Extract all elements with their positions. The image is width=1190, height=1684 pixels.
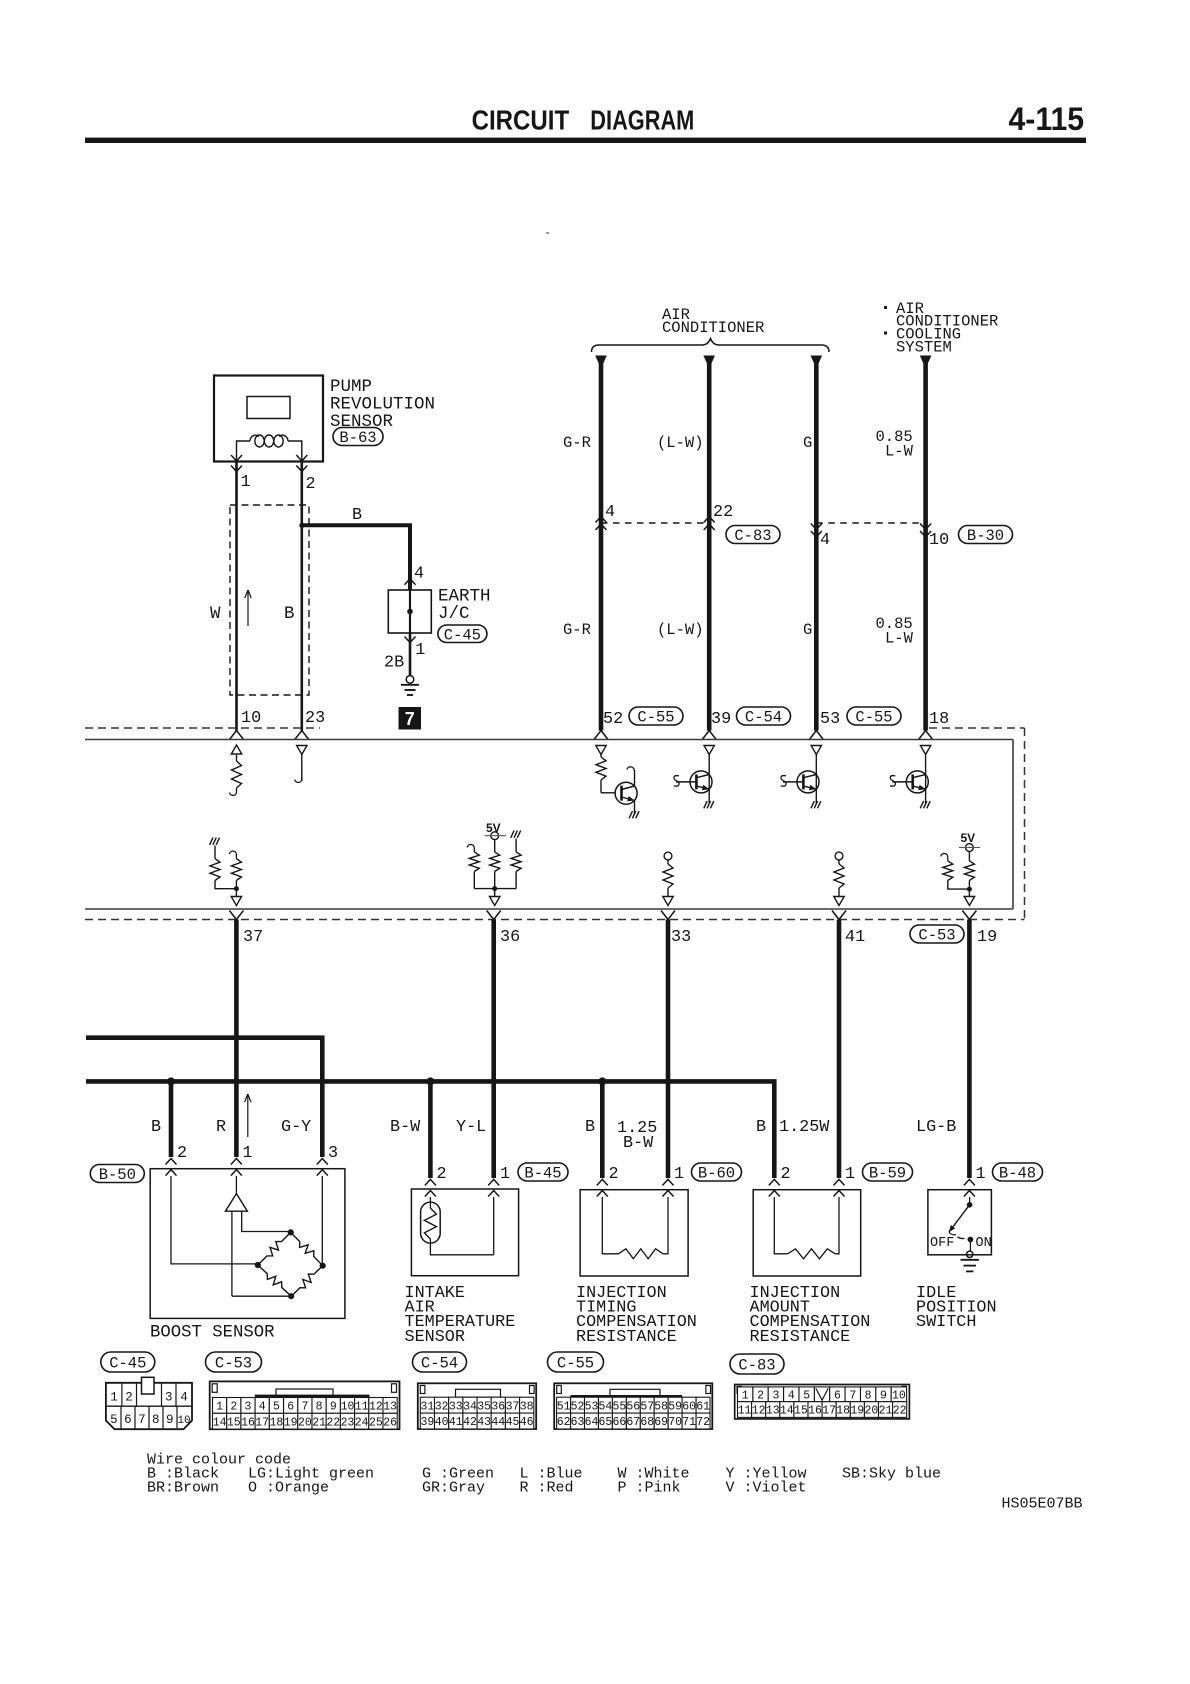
svg-text:14: 14: [780, 1405, 794, 1418]
svg-text:10: 10: [892, 1389, 906, 1402]
label INJECTION AMOUNT COMPENSATION RESISTANCE: [750, 1284, 871, 1347]
connector C-83 drawing: [735, 1385, 910, 1419]
svg-text:RESISTANCE: RESISTANCE: [750, 1328, 851, 1347]
legend title: [147, 1452, 291, 1469]
svg-text:7: 7: [301, 1401, 308, 1414]
timing pin label 2: [609, 1165, 619, 1184]
pin label 1: [241, 473, 251, 492]
connector arrows pin1: [231, 455, 242, 472]
wire 33: [666, 920, 671, 1179]
svg-text:RESISTANCE: RESISTANCE: [576, 1328, 677, 1347]
svg-text:3: 3: [772, 1389, 779, 1402]
svg-text:B-45: B-45: [524, 1165, 561, 1183]
svg-text:L-W: L-W: [885, 443, 914, 461]
label G upper: [803, 434, 812, 452]
svg-text:21: 21: [312, 1416, 326, 1429]
fork ECU bottom x668: [661, 911, 675, 920]
earth J/C box C-45: [388, 590, 431, 633]
svg-text:1: 1: [110, 1391, 118, 1405]
label INTAKE AIR TEMPERATURE SENSOR: [405, 1284, 516, 1347]
svg-text:6: 6: [287, 1401, 294, 1414]
svg-text:3: 3: [165, 1391, 173, 1405]
intake pin label 2: [437, 1165, 447, 1184]
svg-text:(L-W): (L-W): [657, 434, 704, 452]
transistor Q1: [596, 746, 639, 819]
svg-text:4: 4: [788, 1389, 795, 1402]
transistor Q2: [674, 746, 715, 809]
page title CIRCUIT DIAGRAM: [472, 105, 695, 136]
svg-text:4-115: 4-115: [1009, 101, 1085, 137]
connector label C-45: [438, 625, 487, 644]
svg-text:2: 2: [125, 1391, 133, 1405]
svg-text:10: 10: [241, 709, 261, 728]
intake pin1 arrows: [488, 1179, 499, 1196]
svg-text:53: 53: [820, 710, 840, 729]
bus line upper: [86, 1038, 322, 1157]
label Y-L: [456, 1118, 486, 1137]
svg-text:23: 23: [305, 709, 325, 728]
svg-text:8: 8: [316, 1401, 323, 1414]
amount pin2 arrows: [769, 1179, 780, 1196]
svg-text:33: 33: [671, 928, 691, 947]
label LG-B: [916, 1118, 956, 1137]
svg-text:45: 45: [506, 1416, 520, 1429]
pin 4 C83: [605, 503, 615, 522]
label 0.85 L-W lower: [876, 615, 914, 648]
svg-text:22: 22: [713, 503, 733, 522]
fork ECU bottom x236: [229, 911, 243, 920]
connector label C-45 bottom: [101, 1352, 155, 1373]
svg-text:C-83: C-83: [734, 527, 771, 545]
svg-text:68: 68: [640, 1416, 654, 1429]
svg-text:20: 20: [864, 1405, 878, 1418]
svg-text:14: 14: [213, 1416, 227, 1429]
junction dot B-W: [426, 1077, 434, 1085]
svg-text:2: 2: [609, 1165, 619, 1184]
connector label B-30: [959, 526, 1013, 546]
label EARTH J/C: [438, 587, 491, 624]
svg-text:SB:Sky blue: SB:Sky blue: [842, 1466, 941, 1483]
svg-text:3: 3: [328, 1144, 338, 1163]
page number 4-115: [1009, 101, 1085, 137]
svg-text:R: R: [216, 1118, 226, 1137]
sensor inner element: [247, 397, 290, 419]
label B-W wire: [390, 1118, 421, 1137]
connector label C-53 bottom: [206, 1352, 262, 1373]
svg-text:1: 1: [241, 473, 251, 492]
svg-text:31: 31: [420, 1400, 434, 1413]
connector label C-83: [726, 526, 780, 546]
svg-text:36: 36: [500, 928, 520, 947]
connector label B-63: [333, 428, 383, 448]
svg-text:HS05E07BB: HS05E07BB: [1002, 1496, 1083, 1513]
svg-text:15: 15: [794, 1405, 808, 1418]
resistor pin33: [663, 852, 673, 905]
arrow w3 C83: [811, 524, 822, 538]
5V supply pin19: [941, 831, 980, 906]
connector label C-55 bottom: [548, 1352, 604, 1373]
label PUMP REVOLUTION SENSOR: [330, 377, 435, 432]
bridge resistor c: [258, 1265, 291, 1296]
connector label B-50: [90, 1165, 144, 1185]
svg-text:B-63: B-63: [339, 429, 376, 447]
ECU solid outline: [85, 740, 1013, 910]
pin 18: [929, 710, 949, 729]
svg-text:67: 67: [626, 1416, 640, 1429]
arrow w2 C83: [704, 517, 715, 531]
boost pin3 lead: [321, 1176, 323, 1266]
connector label C-54: [737, 707, 791, 727]
label BOOST SENSOR: [150, 1324, 274, 1343]
svg-text:59: 59: [668, 1400, 682, 1413]
idle pin1 arrows: [964, 1179, 975, 1196]
svg-text:23: 23: [341, 1416, 355, 1429]
svg-text:33: 33: [449, 1400, 463, 1413]
svg-text:61: 61: [696, 1400, 710, 1413]
svg-text:12: 12: [752, 1405, 766, 1418]
svg-text:C-45: C-45: [444, 626, 481, 644]
bridge resistor b: [291, 1232, 323, 1265]
fork w1 ECU: [594, 731, 608, 740]
pin label 33: [671, 928, 691, 947]
svg-text:B: B: [585, 1118, 595, 1137]
svg-text:7: 7: [849, 1389, 856, 1402]
svg-text:C-55: C-55: [855, 709, 892, 727]
label G lower: [803, 621, 812, 639]
svg-text:10: 10: [341, 1401, 355, 1414]
svg-text:43: 43: [477, 1416, 491, 1429]
svg-text:B: B: [151, 1118, 161, 1137]
svg-text:G-R: G-R: [563, 434, 591, 452]
boost pin2 arrows: [166, 1159, 177, 1176]
svg-text:LG-B: LG-B: [916, 1118, 956, 1137]
svg-text:1: 1: [742, 1389, 749, 1402]
svg-text:B-W: B-W: [390, 1118, 421, 1137]
fork ECU bottom x493: [487, 911, 501, 920]
svg-text:G: G: [803, 434, 812, 452]
connector label B-45: [518, 1163, 568, 1183]
legend row1: [147, 1466, 941, 1483]
svg-text:64: 64: [585, 1416, 599, 1429]
svg-text:18: 18: [836, 1405, 850, 1418]
thermistor: [421, 1197, 494, 1255]
svg-text:G: G: [803, 621, 812, 639]
pin label 2: [306, 475, 316, 494]
label (L-W) upper: [657, 434, 704, 452]
speck: [546, 232, 549, 234]
ECU dashed outline: [85, 728, 1025, 920]
direction arrow: [245, 590, 251, 626]
svg-text:42: 42: [463, 1416, 477, 1429]
fork w4 ECU: [919, 731, 933, 740]
svg-text:SYSTEM: SYSTEM: [896, 339, 952, 357]
arrow below earth jc: [405, 633, 416, 676]
boost pin3 arrows: [317, 1159, 328, 1176]
intake sensor box: [411, 1189, 518, 1276]
svg-text:32: 32: [435, 1400, 449, 1413]
svg-text:3: 3: [245, 1401, 252, 1414]
header rule: [85, 138, 1086, 143]
fork wire1 ECU: [230, 731, 244, 740]
label B wire: [352, 506, 362, 525]
svg-text:1: 1: [500, 1165, 510, 1184]
svg-text:66: 66: [612, 1416, 626, 1429]
svg-text:6: 6: [124, 1413, 132, 1427]
boost pin label 1: [242, 1144, 252, 1163]
svg-text:18: 18: [929, 710, 949, 729]
svg-text:52: 52: [571, 1400, 585, 1413]
svg-text:CIRCUIT: CIRCUIT: [472, 105, 570, 136]
svg-text:24: 24: [355, 1416, 369, 1429]
idle switch box: [928, 1190, 992, 1255]
wire W pin1 to ECU 10: [235, 461, 238, 731]
label 2B: [384, 654, 404, 673]
connector label C-53 ecu: [910, 925, 964, 945]
timing resistor: [602, 1197, 668, 1259]
label B shield: [284, 604, 295, 624]
svg-text:C-53: C-53: [215, 1355, 252, 1373]
wire 37 R: [234, 920, 239, 1158]
pin 22 C83: [713, 503, 733, 522]
svg-text:37: 37: [243, 928, 263, 947]
fork w3 ECU: [809, 731, 823, 740]
svg-text:60: 60: [682, 1400, 696, 1413]
intake pin2 arrows: [425, 1179, 436, 1196]
svg-text:BR:Brown: BR:Brown: [147, 1480, 219, 1497]
label 1.25W: [779, 1118, 830, 1137]
svg-text:C-54: C-54: [745, 709, 782, 727]
pin 53: [820, 710, 840, 729]
svg-text:20: 20: [298, 1416, 312, 1429]
transistor Q4: [890, 746, 931, 809]
amount resistor: [774, 1197, 839, 1259]
boost pin label 2: [177, 1144, 187, 1163]
svg-text:1.25W: 1.25W: [779, 1118, 830, 1137]
wire 41 1.25W: [837, 920, 842, 1179]
pin 10 B30: [929, 531, 949, 550]
ground ref 7 box: [399, 707, 422, 730]
svg-text:R :Red: R :Red: [520, 1480, 574, 1497]
timing pin1 arrows: [663, 1179, 674, 1196]
connector label C-55 a: [629, 707, 683, 727]
svg-text:5: 5: [803, 1389, 810, 1402]
resistor pair pin37: [210, 838, 242, 906]
wire 36 Y-L: [491, 920, 496, 1179]
wire G feed: [811, 356, 823, 731]
idle switch ground: [961, 1240, 980, 1272]
svg-text:19: 19: [850, 1405, 864, 1418]
ground symbol: [401, 676, 419, 695]
svg-text:39: 39: [420, 1416, 434, 1429]
pump revolution sensor box B-63: [214, 376, 323, 462]
svg-text:B-50: B-50: [99, 1166, 136, 1184]
pin 52: [603, 710, 623, 729]
svg-text:1: 1: [674, 1165, 684, 1184]
svg-text:2: 2: [177, 1144, 187, 1163]
svg-text:15: 15: [227, 1416, 241, 1429]
svg-text:6: 6: [834, 1389, 841, 1402]
svg-text:J/C: J/C: [438, 604, 470, 624]
svg-text:22: 22: [326, 1416, 340, 1429]
arrow w1 C83: [596, 517, 607, 531]
boost amp leads: [232, 1211, 291, 1296]
svg-text:C-45: C-45: [109, 1355, 146, 1373]
injection amount box: [753, 1190, 861, 1276]
svg-text:O :Orange: O :Orange: [248, 1480, 329, 1497]
pin 39: [711, 710, 731, 729]
fork ECU bottom x969: [962, 911, 976, 920]
svg-text:Y-L: Y-L: [456, 1118, 486, 1137]
pin 4 b: [820, 531, 830, 550]
pin label 23: [305, 709, 325, 728]
wire L-W feed: [703, 356, 715, 731]
pin label 41: [845, 928, 865, 947]
svg-text:41: 41: [449, 1416, 463, 1429]
timing pin label 1: [674, 1165, 684, 1184]
svg-text:BOOST SENSOR: BOOST SENSOR: [150, 1324, 274, 1343]
connector C-83 dashed line: [601, 522, 926, 524]
direction arrow R wire: [245, 1094, 251, 1137]
svg-text:G-Y: G-Y: [281, 1118, 311, 1137]
pin label 19: [977, 928, 997, 947]
amount pin label 2: [781, 1165, 791, 1184]
label B amount: [756, 1118, 766, 1137]
svg-text:69: 69: [654, 1416, 668, 1429]
svg-text:2: 2: [230, 1401, 237, 1414]
svg-text:C-55: C-55: [557, 1355, 594, 1373]
svg-text:B-W: B-W: [623, 1134, 654, 1153]
document code: [1002, 1496, 1083, 1513]
label W: [210, 604, 221, 624]
svg-text:ON: ON: [976, 1236, 992, 1251]
connector C-53 drawing: [210, 1381, 400, 1429]
resistor pin41: [834, 852, 844, 905]
svg-text:5: 5: [110, 1413, 118, 1427]
label AIR CONDITIONER COOLING SYSTEM: [884, 300, 998, 357]
svg-text:5: 5: [273, 1401, 280, 1414]
svg-text:9: 9: [166, 1413, 174, 1427]
svg-text:5V: 5V: [486, 821, 501, 835]
svg-text:SWITCH: SWITCH: [916, 1313, 976, 1332]
svg-text:10: 10: [177, 1415, 190, 1427]
svg-text:SENSOR: SENSOR: [405, 1328, 465, 1347]
connector C-45 drawing: [106, 1377, 192, 1429]
label B boost: [151, 1118, 161, 1137]
svg-text:4: 4: [820, 531, 830, 550]
svg-text:CONDITIONER: CONDITIONER: [662, 319, 764, 337]
svg-text:C-53: C-53: [918, 927, 955, 945]
svg-text:8: 8: [152, 1413, 160, 1427]
svg-text:72: 72: [696, 1416, 710, 1429]
arrow w4 C83: [920, 524, 931, 538]
wire B timing: [600, 1081, 605, 1178]
label G-R lower: [563, 621, 591, 639]
wire B boost: [169, 1081, 174, 1157]
svg-text:DIAGRAM: DIAGRAM: [590, 105, 694, 136]
connector label B-59: [863, 1163, 913, 1183]
boost amp triangle: [225, 1176, 247, 1211]
svg-text:13: 13: [383, 1401, 397, 1414]
amount pin label 1: [845, 1165, 855, 1184]
injection timing box: [580, 1190, 688, 1276]
svg-text:2: 2: [757, 1389, 764, 1402]
connector label B-60: [692, 1163, 742, 1183]
svg-text:C-83: C-83: [738, 1357, 775, 1375]
wire 19 LG-B: [967, 920, 972, 1179]
svg-text:62: 62: [557, 1416, 571, 1429]
svg-text:B-48: B-48: [999, 1165, 1036, 1183]
svg-text:2: 2: [437, 1165, 447, 1184]
label AIR CONDITIONER: [662, 306, 764, 337]
svg-text:4: 4: [259, 1401, 266, 1414]
svg-text:9: 9: [880, 1389, 887, 1402]
svg-text:GR:Gray: GR:Gray: [422, 1480, 485, 1497]
svg-text:P :Pink: P :Pink: [618, 1480, 681, 1497]
boost pin2 lead: [171, 1176, 258, 1264]
svg-text:1: 1: [415, 641, 425, 660]
connector arrows pin2: [296, 455, 307, 472]
svg-text:9: 9: [330, 1401, 337, 1414]
svg-text:1: 1: [845, 1165, 855, 1184]
svg-text:B: B: [352, 506, 362, 525]
svg-text:46: 46: [520, 1416, 534, 1429]
svg-text:16: 16: [241, 1416, 255, 1429]
svg-text:4: 4: [605, 503, 615, 522]
svg-text:5V: 5V: [961, 831, 976, 845]
svg-text:54: 54: [598, 1400, 612, 1413]
bridge resistor d: [291, 1266, 323, 1297]
connector label C-83 bottom: [730, 1354, 784, 1375]
svg-text:C-54: C-54: [421, 1355, 458, 1373]
svg-text:55: 55: [612, 1400, 626, 1413]
boost sensor box: [150, 1169, 345, 1319]
bridge nodes: [255, 1229, 326, 1299]
svg-text:1: 1: [242, 1144, 252, 1163]
svg-text:35: 35: [477, 1400, 491, 1413]
svg-text:34: 34: [463, 1400, 477, 1413]
switch symbol: [930, 1197, 992, 1251]
wire B-W: [428, 1081, 433, 1178]
svg-text:C-55: C-55: [637, 709, 674, 727]
pin label 36: [500, 928, 520, 947]
arrow into earth jc: [405, 579, 416, 585]
svg-text:W: W: [210, 604, 221, 624]
fork ECU bottom x839: [832, 911, 846, 920]
svg-text:44: 44: [491, 1416, 505, 1429]
label IDLE POSITION SWITCH: [916, 1284, 997, 1332]
timing pin2 arrows: [597, 1179, 608, 1196]
svg-text:65: 65: [598, 1416, 612, 1429]
boost pin1 arrows: [231, 1159, 242, 1176]
bus line lower: [86, 1081, 774, 1178]
svg-text:40: 40: [435, 1416, 449, 1429]
svg-text:36: 36: [491, 1400, 505, 1413]
legend row2: [147, 1480, 807, 1497]
resistor pin10: [230, 745, 242, 795]
svg-text:B: B: [284, 604, 295, 624]
transistor Q3: [781, 746, 822, 809]
svg-text:V :Violet: V :Violet: [726, 1480, 807, 1497]
svg-text:17: 17: [255, 1416, 269, 1429]
svg-text:B-59: B-59: [869, 1165, 906, 1183]
svg-text:G-R: G-R: [563, 621, 591, 639]
stub pin23: [295, 746, 307, 783]
idle pin label 1: [976, 1165, 986, 1184]
svg-text:19: 19: [284, 1416, 298, 1429]
connector C-55 drawing: [554, 1383, 712, 1429]
pin label 37: [243, 928, 263, 947]
amount pin1 arrows: [834, 1179, 845, 1196]
